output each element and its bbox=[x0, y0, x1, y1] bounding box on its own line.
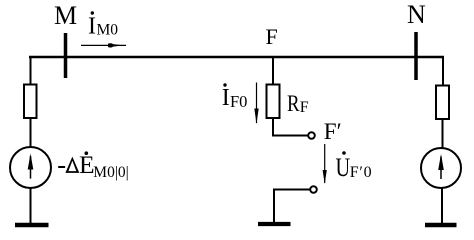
wire: left drop from bus to resistor bbox=[30, 57, 32, 85]
ground right bbox=[425, 223, 457, 228]
wire: right drop from bus to resistor bbox=[442, 57, 444, 86]
resistor right (source impedance) bbox=[436, 86, 449, 120]
current arrow IF0 (down) bbox=[254, 83, 258, 125]
label UF'0 bbox=[336, 151, 373, 182]
current label IF0 bbox=[222, 83, 248, 111]
wire: source to ground left bbox=[30, 188, 32, 224]
source right (circle with up arrow) bbox=[421, 148, 461, 188]
voltage arrow UF'0 (down) bbox=[323, 144, 327, 184]
svg-text:F: F bbox=[266, 24, 278, 49]
source U-M (circle with up arrow) bbox=[10, 147, 51, 188]
bus bar N bbox=[414, 32, 418, 80]
svg-text:R: R bbox=[287, 90, 300, 116]
svg-text:F0: F0 bbox=[230, 92, 247, 111]
svg-text:N: N bbox=[407, 0, 426, 29]
label -dE M0|0| bbox=[58, 150, 129, 181]
ground middle bbox=[258, 222, 291, 226]
label RF bbox=[287, 90, 309, 116]
svg-text:M0|0|: M0|0| bbox=[93, 164, 129, 181]
wire: F drop from bus to RF bbox=[272, 57, 274, 85]
wire: resistor to source right bbox=[442, 119, 444, 148]
wire: RF to terminal F' bbox=[273, 118, 308, 136]
terminal F' (open circle) bbox=[308, 132, 315, 139]
wire: source to ground right bbox=[441, 189, 443, 224]
svg-text:I: I bbox=[88, 14, 96, 40]
ground left bbox=[15, 223, 49, 228]
svg-text:F′: F′ bbox=[324, 119, 342, 144]
wire: lower terminal to ground middle bbox=[274, 190, 310, 223]
resistor left (source impedance) bbox=[24, 85, 37, 119]
current label IM0 bbox=[88, 11, 118, 39]
resistor RF bbox=[267, 85, 280, 119]
svg-text:I: I bbox=[222, 85, 230, 111]
wire: resistor to source bbox=[30, 118, 32, 148]
current arrow IM0 bbox=[81, 43, 126, 47]
svg-text:F′0: F′0 bbox=[350, 164, 373, 181]
svg-text:M: M bbox=[54, 1, 77, 30]
terminal lower (open circle) bbox=[310, 186, 317, 193]
svg-text:M0: M0 bbox=[97, 22, 119, 39]
svg-text:U: U bbox=[336, 154, 351, 183]
wire: main horizontal bus M-F-N bbox=[29, 56, 444, 58]
bus bar M bbox=[64, 33, 68, 78]
svg-text:F: F bbox=[300, 99, 309, 116]
